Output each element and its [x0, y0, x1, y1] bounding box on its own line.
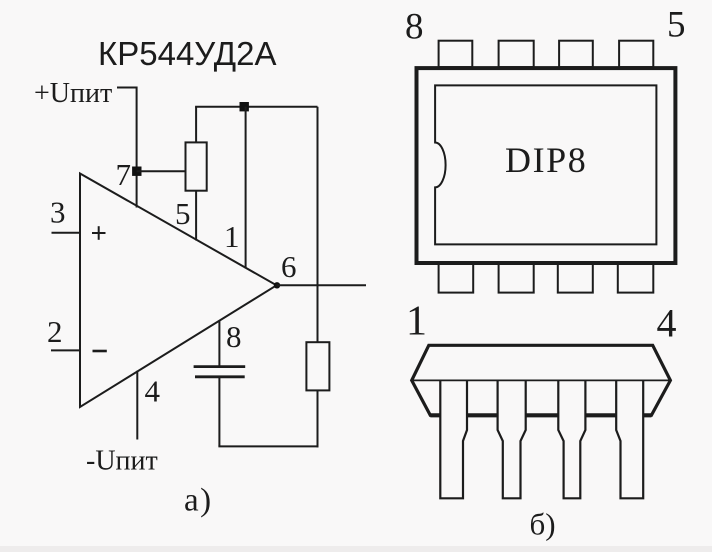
svg-text:1: 1	[224, 219, 240, 254]
svg-text:8: 8	[405, 7, 424, 48]
svg-text:+Uпит: +Uпит	[34, 78, 112, 109]
top pin rect 4	[619, 41, 653, 67]
side pin 2	[498, 380, 526, 498]
svg-text:8: 8	[226, 319, 242, 354]
resistor R1	[186, 142, 207, 190]
svg-text:3: 3	[50, 195, 66, 230]
svg-text:КР544УД2А: КР544УД2А	[98, 35, 277, 72]
wire R1 top up	[195, 107, 197, 143]
svg-text:-Uпит: -Uпит	[86, 446, 158, 477]
node junction at pin 7	[132, 167, 141, 176]
wire pin 4 lead	[136, 371, 138, 440]
svg-text:5: 5	[175, 196, 191, 231]
wire junction 7 to resistor R1 left side	[137, 170, 186, 172]
svg-text:а): а)	[184, 483, 213, 519]
IC body inner rect with notch	[435, 85, 656, 244]
bottom pin rect 2	[499, 264, 534, 293]
wire output pin 6	[277, 284, 367, 286]
svg-text:DIP8: DIP8	[505, 140, 587, 180]
svg-text:2: 2	[47, 314, 63, 349]
wire pin 8 lead	[218, 320, 220, 366]
node junction on top wire	[240, 102, 249, 111]
plus sign noninverting input	[92, 232, 106, 234]
pin 3 stub	[52, 232, 81, 234]
bottom pin rect 1	[439, 264, 474, 293]
svg-text:4: 4	[657, 301, 677, 346]
wire right feedback branch	[317, 107, 319, 343]
top pin rect 3	[559, 41, 593, 67]
minus sign inverting input	[93, 350, 107, 353]
wire pin 1 lead	[245, 107, 247, 269]
svg-text:б): б)	[530, 507, 556, 542]
svg-text:1: 1	[406, 299, 427, 345]
svg-text:4: 4	[145, 374, 161, 409]
wire bottom horizontal	[218, 445, 318, 447]
wire pin 5 lead	[195, 191, 197, 241]
top pin rect 1	[439, 41, 473, 67]
node output apex dot	[274, 282, 280, 288]
op-amp U1 triangle	[80, 174, 277, 408]
svg-text:6: 6	[281, 249, 297, 284]
side pin 3	[558, 380, 585, 498]
capacitor C1 plates	[194, 365, 246, 368]
wire top horizontal	[195, 106, 317, 108]
package seam line	[412, 379, 671, 381]
package body hexagon	[412, 345, 671, 415]
IC body outer rect	[417, 68, 676, 263]
bottom pin rect 4	[618, 264, 654, 293]
side pin 4	[616, 380, 643, 498]
resistor R2	[306, 342, 329, 390]
side pin 1	[440, 380, 467, 498]
bottom pin rect 3	[558, 264, 593, 293]
wire capacitor to bottom	[218, 377, 220, 447]
wire R2 bottom down	[317, 390, 319, 447]
top pin rect 2	[499, 41, 534, 67]
package body bottom edge	[430, 413, 651, 417]
wire +Upit to pin 7	[117, 88, 137, 208]
svg-text:7: 7	[116, 157, 132, 192]
svg-text:5: 5	[667, 5, 686, 46]
pin 2 stub	[51, 349, 80, 351]
